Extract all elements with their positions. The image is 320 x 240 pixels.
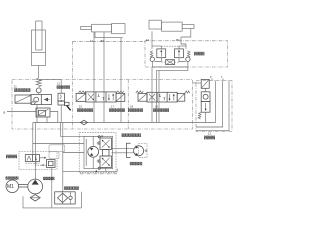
motor M1: [6, 180, 19, 193]
filter bypass: [69, 196, 72, 199]
wire port A2: [151, 31, 153, 49]
label reducer: [130, 162, 143, 165]
svg-text:M1: M1: [7, 184, 14, 190]
enclosure divider dash-dot: [72, 41, 74, 129]
wire step down: [120, 38, 122, 102]
wire port A1: [93, 32, 95, 102]
wire lift cylinder to check: [38, 66, 40, 79]
telescopic cylinder cap: [149, 20, 162, 29]
valve U1 solenoid box: [15, 95, 31, 103]
pilot block upper: [49, 145, 65, 152]
label pump: [43, 177, 55, 180]
return filter box: [55, 192, 75, 204]
valve U4 body: [147, 92, 177, 102]
svg-text:A2: A2: [146, 38, 150, 42]
telescopic cylinder rod: [182, 25, 194, 29]
wire P line pump to rail: [34, 123, 36, 180]
spring swing top: [98, 142, 101, 145]
wire valve U1 lower port: [36, 105, 38, 123]
unloader port P2: [211, 78, 213, 80]
wires valve row bottom drops: [93, 102, 95, 123]
label swing top: [122, 133, 142, 137]
wire relief inlet: [32, 123, 34, 155]
enclosure dash-dot main manifold box: [12, 80, 193, 130]
svg-text:B2: B2: [176, 38, 180, 42]
swing inner frame: [84, 136, 113, 168]
valve U4 left solenoid: [138, 93, 147, 101]
label relief valve: [6, 155, 17, 159]
swing brake valve middle: [103, 150, 110, 157]
lift cylinder piston: [32, 52, 46, 54]
wire unloader drain: [205, 112, 207, 122]
wires swing return bundle: [63, 169, 117, 172]
balance valve left cartridge: [157, 49, 166, 58]
filter diamond: [58, 193, 68, 202]
balance valve left ball: [150, 57, 154, 61]
wires balance internals: [160, 46, 162, 49]
pilot supply stub upper: [33, 143, 84, 145]
wire balance to valve U4 B: [157, 67, 188, 123]
unloader pilot valve: [201, 92, 210, 102]
spring valve U1: [31, 101, 36, 104]
dash-dot below swing: [80, 173, 118, 175]
pilot head: [47, 160, 56, 168]
check diamond on rail: [81, 120, 88, 125]
pump: [28, 179, 43, 194]
pilot supply stub lower: [63, 152, 84, 154]
spring above pilot check: [36, 78, 41, 87]
suction strainer: [34, 193, 36, 196]
wire telescopic rod end step: [181, 29, 191, 37]
balance valve center orifice: [166, 60, 175, 65]
wire relief to pilot head: [40, 157, 47, 159]
valve U4 right spring: [185, 91, 190, 93]
enclosure divider dash-dot 2: [127, 80, 129, 130]
wire port B1: [103, 32, 105, 102]
valve U4 left spring: [136, 91, 144, 93]
junction circles swing: [98, 136, 100, 138]
balance valve left spring: [150, 51, 153, 57]
telescopic cylinder barrel: [162, 22, 183, 31]
lift cylinder barrel: [32, 30, 46, 66]
label filter: [64, 186, 79, 190]
tank lines: [23, 196, 82, 208]
unloader vertical runs: [215, 81, 217, 123]
valve U3 right spring: [116, 91, 124, 93]
svg-text:B1: B1: [101, 39, 105, 43]
unloader spring: [198, 112, 201, 119]
wire luffing ports step: [95, 32, 123, 38]
svg-text:A1: A1: [90, 39, 94, 43]
shaft: [19, 184, 28, 186]
unloader solenoid: [201, 79, 209, 88]
reducer dashed frame: [139, 144, 147, 158]
relief valve body: [25, 155, 39, 162]
valve U1 body: [31, 95, 52, 105]
valve U3 body: [86, 92, 116, 102]
balance valve dash-dot box: [145, 41, 228, 67]
lock valve U2 lever: [64, 102, 69, 105]
valve U3 left spring: [79, 91, 86, 93]
luffing cylinder barrel: [92, 24, 112, 32]
svg-text:B: B: [4, 111, 6, 115]
pilot dashed cross lines: [161, 45, 179, 47]
valve U3 right solenoid: [116, 93, 125, 101]
luffing cylinder rod: [81, 26, 92, 29]
swing brake valve bottom: [100, 156, 112, 168]
valve U3 left solenoid: [76, 93, 86, 101]
label balance valve: [194, 52, 205, 56]
balance valve right cartridge: [175, 49, 184, 58]
swing motor: [88, 146, 99, 157]
wire pilot drain: [51, 168, 53, 208]
unloader main valve: [201, 102, 210, 113]
wire balance to valve U4 A: [151, 67, 153, 123]
wire lock valve down: [60, 105, 62, 123]
wire throttle out: [50, 112, 58, 123]
wire feed to swing: [61, 123, 101, 137]
wire pilot line to lock valve: [39, 80, 62, 93]
enclosure right dash-dot box (unloading valve block): [196, 81, 232, 132]
tank rail: [33, 122, 193, 124]
wire tank drop right: [81, 192, 83, 208]
wire port B2: [180, 37, 182, 44]
wires swing to reducer: [112, 147, 134, 149]
reducer circle: [134, 146, 144, 156]
reducer bracket: [127, 143, 131, 157]
pilot check valve ball: [36, 88, 41, 93]
luffing cylinder cap block: [112, 24, 125, 34]
machine boundary dash-dot: [73, 40, 146, 42]
label motor: [6, 176, 19, 179]
wire pilot supply from border: [7, 111, 36, 113]
relief valve dashed box: [19, 152, 57, 170]
balance valve right ball: [186, 57, 190, 61]
wire throttle drain: [46, 117, 48, 123]
lock valve U2 body: [58, 93, 64, 101]
wire return line: [62, 123, 64, 192]
swing assembly dashed box: [79, 133, 116, 173]
spring swing bottom: [98, 160, 101, 163]
lift cylinder rod: [36, 21, 42, 50]
throttle valve below U1: [36, 108, 50, 117]
balance valve right spring: [187, 51, 190, 57]
unloader port T2: [222, 78, 224, 80]
pilot block lower: [49, 152, 59, 159]
swing brake valve top: [100, 138, 112, 150]
wire unloader inlet: [193, 82, 202, 84]
valve U4 right solenoid: [177, 93, 185, 101]
